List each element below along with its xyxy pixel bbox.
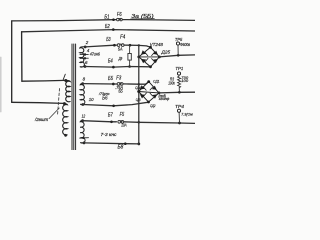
node Б8 [124, 142, 127, 145]
diode bridge 1 VТ248 [137, 46, 160, 68]
pin 4 taps [80, 53, 88, 55]
terminal TP5 [177, 45, 179, 55]
pin tap bottom winding [80, 137, 88, 139]
svg-text:12: 12 [82, 114, 86, 119]
pin 10 [82, 103, 85, 106]
node Б6 [112, 104, 115, 107]
node R3 bottom [178, 91, 181, 94]
winding secondary middle (8-10) [80, 84, 85, 105]
svg-text:20А: 20А [121, 122, 127, 127]
wire bridge1 right to edge [159, 55, 195, 57]
pin 2 [84, 46, 87, 49]
svg-text:Б6: Б6 [102, 96, 107, 102]
wire Б6 winding10 to bridge2 bottom [83, 102, 149, 106]
node Б4 [112, 66, 115, 69]
svg-text:/2вшт: /2вшт [34, 117, 49, 122]
node Б3 [113, 44, 116, 47]
fuse F4 [117, 44, 124, 47]
wire inner bottom run to primary I coil [22, 79, 65, 82]
svg-text:Б8: Б8 [118, 145, 124, 151]
wire Б1 after fuse to right edge [122, 19, 195, 22]
wire F3 to bridge2 top [123, 82, 149, 84]
label 1 slash [63, 74, 65, 79]
svg-text:СД3: СД3 [136, 98, 141, 102]
wire left inner vertical [21, 32, 23, 81]
resistor R3 zigzag [178, 75, 181, 92]
pin bottom [83, 142, 86, 145]
fuse F3 [117, 83, 123, 86]
fuse F5 [118, 120, 124, 123]
svg-text:СД1: СД1 [153, 78, 159, 83]
resistor Д9 [128, 54, 131, 61]
svg-text:F5: F5 [120, 112, 125, 118]
svg-text:Б7: Б7 [108, 113, 113, 119]
svg-text:3а (5Б): 3а (5Б) [131, 14, 154, 20]
svg-text:VТ248: VТ248 [150, 42, 164, 47]
svg-text:Б3: Б3 [106, 37, 111, 43]
terminal TP4 [178, 112, 180, 123]
node rail x Б7 [138, 121, 141, 124]
transformer T1 core [72, 44, 76, 150]
svg-text:6: 6 [85, 60, 88, 65]
node Б2 [112, 28, 115, 31]
node rail x Б5 [138, 83, 141, 86]
svg-text:5Б: 5Б [118, 89, 123, 94]
wire Б8 [84, 143, 139, 144]
svg-text:4В0нф: 4В0нф [159, 97, 169, 101]
svg-text:F3: F3 [116, 76, 121, 82]
DC rail vertical [138, 45, 140, 143]
winding secondary top (2-4-6) [80, 47, 85, 67]
svg-text:СД4: СД4 [135, 86, 140, 90]
svg-text:100к: 100к [168, 80, 175, 85]
node Б1 [112, 18, 115, 21]
svg-text:47ин6: 47ин6 [90, 52, 101, 57]
node TP5 [177, 54, 180, 57]
svg-text:100: 100 [181, 78, 189, 83]
svg-text:Ф600в: Ф600в [180, 42, 191, 47]
winding primary lower [63, 104, 68, 136]
wire F4 to bridge1 top [124, 45, 150, 47]
svg-text:7-3 кнс: 7-3 кнс [101, 132, 118, 137]
svg-text:F4: F4 [120, 35, 125, 41]
pin 6 [84, 65, 87, 68]
svg-text:Д25: Д25 [160, 49, 170, 54]
svg-text:СД2: СД2 [150, 104, 156, 108]
wire mains Б1 top [12, 20, 117, 21]
wire Б4 winding6 to bridge1 bottom [85, 66, 151, 69]
node rail end [137, 143, 140, 146]
svg-text:Б4: Б4 [108, 59, 113, 65]
svg-text:5А: 5А [118, 46, 123, 51]
wire Б7 winding12 to F5 [83, 121, 117, 122]
node R9 top [129, 44, 132, 47]
svg-text:8: 8 [83, 77, 86, 82]
wire left outer vertical [11, 21, 13, 102]
screen dashed line [58, 89, 60, 116]
node primary lower bottom [64, 134, 67, 137]
node Б7 [110, 120, 113, 123]
pin 8 [81, 82, 84, 85]
fuse F6 [117, 18, 123, 21]
svg-text:Д9: Д9 [118, 56, 123, 61]
svg-text:2: 2 [85, 40, 89, 45]
scan edge artifact [0, 57, 2, 112]
svg-text:Б1: Б1 [104, 14, 109, 20]
wire Б5 winding8 to F3 [83, 83, 117, 85]
svg-text:Б5: Б5 [108, 76, 113, 82]
wire F5 to right edge [124, 122, 195, 124]
svg-text:10: 10 [89, 97, 94, 102]
node primary upper terminal [64, 79, 67, 82]
pin 12 [81, 119, 84, 122]
terminal TP1 [177, 72, 180, 75]
node R9 bottom [128, 65, 131, 68]
label 3а underline [130, 18, 154, 20]
svg-text:7.3(Ом: 7.3(Ом [181, 111, 193, 116]
label 12вшт leader [49, 108, 59, 119]
wire mains Б2 [22, 30, 195, 32]
svg-text:F6: F6 [117, 12, 122, 18]
wire bridge2 right to edge [159, 91, 195, 94]
winding primary upper (pin 1) [66, 80, 70, 101]
diode bridge 2 СД1-СД4 [137, 80, 160, 103]
winding secondary bottom (12) [80, 121, 85, 143]
node primary lower terminal [63, 102, 66, 105]
wire Б3 winding2 to F4 [85, 45, 117, 47]
node Б5 [112, 83, 115, 86]
node TP4 [178, 122, 181, 125]
svg-text:Б2: Б2 [105, 24, 110, 30]
wire outer bottom run to primary II coil [12, 102, 64, 103]
node rail top [138, 44, 140, 46]
svg-text:ТР1: ТР1 [175, 66, 183, 71]
svg-text:ТР4: ТР4 [175, 104, 185, 109]
